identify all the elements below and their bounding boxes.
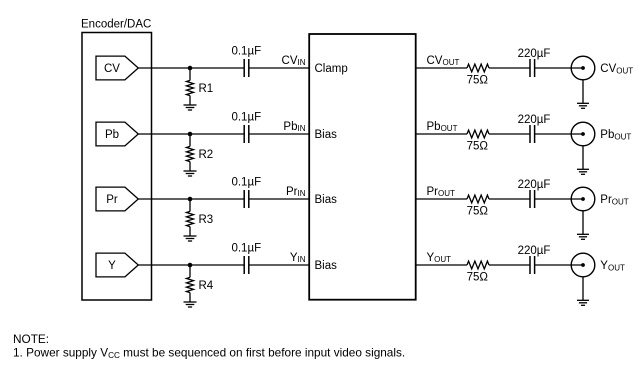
connector PbOUT jack xyxy=(571,122,595,146)
node label PrIN xyxy=(286,186,306,198)
resistor 75Ω (CV output) xyxy=(467,64,489,86)
node CV junction xyxy=(188,66,193,71)
encoder output pin Pb xyxy=(96,122,138,146)
encoder output pin Y xyxy=(96,253,138,277)
encoder output pin Pr xyxy=(96,187,138,211)
svg-text:Pr: Pr xyxy=(106,194,118,206)
ground below R1 xyxy=(184,105,197,110)
svg-text:75Ω: 75Ω xyxy=(467,74,489,86)
svg-text:0.1µF: 0.1µF xyxy=(231,243,261,255)
svg-text:1. Power supply VCC must be se: 1. Power supply VCC must be sequenced on… xyxy=(13,345,405,360)
connector YOUT jack xyxy=(571,253,595,277)
svg-text:YOUT: YOUT xyxy=(600,260,625,272)
capacitor 0.1µF (Pb input) xyxy=(231,112,261,143)
wire resistor to 220µF cap xyxy=(489,264,530,266)
ground below R2 xyxy=(184,171,197,176)
wire resistor to 220µF cap xyxy=(489,133,530,135)
svg-text:0.1µF: 0.1µF xyxy=(231,46,261,58)
svg-text:CVIN: CVIN xyxy=(282,55,306,67)
svg-text:YIN: YIN xyxy=(290,252,306,264)
wire cap to PrIN pin xyxy=(249,198,309,200)
svg-text:Bias: Bias xyxy=(315,194,338,206)
pin label Bias xyxy=(315,129,338,141)
svg-text:PbOUT: PbOUT xyxy=(427,121,458,133)
ground below PrOUT connector xyxy=(577,211,589,240)
wire resistor to 220µF cap xyxy=(489,198,530,200)
svg-text:Pb: Pb xyxy=(105,129,119,141)
video buffer block U1 xyxy=(309,34,416,300)
node Pb junction xyxy=(188,132,193,137)
resistor R1 xyxy=(187,70,214,106)
svg-text:220µF: 220µF xyxy=(518,48,551,60)
ground below CVOUT connector xyxy=(577,80,589,109)
wire Pb to coupling cap xyxy=(138,133,244,135)
encoder output pin CV xyxy=(96,56,138,80)
resistor 75Ω (Pb output) xyxy=(467,130,489,152)
capacitor 220µF (Y output) xyxy=(518,245,551,274)
svg-text:0.1µF: 0.1µF xyxy=(231,177,261,189)
wire cap to CVOUT connector xyxy=(535,67,583,69)
Encoder/DAC block xyxy=(81,18,152,300)
node label PbOUT (block output) xyxy=(427,121,458,133)
wire PbOUT to 75Ω resistor xyxy=(416,133,467,135)
node label CVIN xyxy=(282,55,306,67)
wire Y to coupling cap xyxy=(138,264,244,266)
pin label Bias xyxy=(315,194,338,206)
svg-text:Y: Y xyxy=(108,260,116,272)
svg-text:PrOUT: PrOUT xyxy=(427,186,456,198)
svg-text:NOTE:: NOTE: xyxy=(13,332,49,346)
node label CVOUT (connector) xyxy=(600,63,633,75)
capacitor 220µF (Pr output) xyxy=(518,179,551,208)
resistor 75Ω (Y output) xyxy=(467,261,489,283)
svg-text:R1: R1 xyxy=(199,83,214,95)
wire resistor to 220µF cap xyxy=(489,67,530,69)
svg-text:PbIN: PbIN xyxy=(283,121,305,133)
resistor R4 xyxy=(187,267,214,303)
pin label Clamp xyxy=(315,63,348,75)
svg-text:220µF: 220µF xyxy=(518,245,551,257)
wire PrOUT to 75Ω resistor xyxy=(416,198,467,200)
svg-text:CVOUT: CVOUT xyxy=(427,55,460,67)
wire cap to PbIN pin xyxy=(249,133,309,135)
node label PrOUT (connector) xyxy=(600,194,629,206)
capacitor 220µF (CV output) xyxy=(518,48,551,77)
svg-text:220µF: 220µF xyxy=(518,179,551,191)
connector PrOUT jack xyxy=(571,187,595,211)
svg-text:PrOUT: PrOUT xyxy=(600,194,629,206)
resistor R3 xyxy=(187,201,214,237)
node label YOUT (block output) xyxy=(427,252,452,264)
svg-text:PrIN: PrIN xyxy=(286,186,306,198)
wire cap to YIN pin xyxy=(249,264,309,266)
wire cap to CVIN pin xyxy=(249,67,309,69)
svg-text:Clamp: Clamp xyxy=(315,63,348,75)
capacitor 0.1µF (Y input) xyxy=(231,243,261,274)
resistor R2 xyxy=(187,136,214,172)
svg-text:CV: CV xyxy=(104,63,120,75)
resistor 75Ω (Pr output) xyxy=(467,195,489,217)
svg-text:R4: R4 xyxy=(199,280,214,292)
svg-text:PbOUT: PbOUT xyxy=(600,129,631,141)
ground below PbOUT connector xyxy=(577,146,589,175)
pin label Bias xyxy=(315,260,338,272)
connector CVOUT jack xyxy=(571,56,595,80)
svg-text:75Ω: 75Ω xyxy=(467,205,489,217)
svg-text:75Ω: 75Ω xyxy=(467,140,489,152)
capacitor 220µF (Pb output) xyxy=(518,114,551,143)
svg-text:R2: R2 xyxy=(199,149,214,161)
node label PbOUT (connector) xyxy=(600,129,631,141)
svg-text:R3: R3 xyxy=(199,214,214,226)
svg-text:CVOUT: CVOUT xyxy=(600,63,633,75)
node label YOUT (connector) xyxy=(600,260,625,272)
wire Pr to coupling cap xyxy=(138,198,244,200)
svg-text:Bias: Bias xyxy=(315,260,338,272)
wire cap to PrOUT connector xyxy=(535,198,583,200)
svg-text:75Ω: 75Ω xyxy=(467,271,489,283)
wire CV to coupling cap xyxy=(138,67,244,69)
svg-text:Bias: Bias xyxy=(315,129,338,141)
wire cap to PbOUT connector xyxy=(535,133,583,135)
svg-text:0.1µF: 0.1µF xyxy=(231,112,261,124)
node label YIN xyxy=(290,252,306,264)
ground below R4 xyxy=(184,302,197,307)
ground below YOUT connector xyxy=(577,277,589,306)
node Y junction xyxy=(188,263,193,268)
svg-text:220µF: 220µF xyxy=(518,114,551,126)
svg-text:YOUT: YOUT xyxy=(427,252,452,264)
note text xyxy=(13,332,405,360)
ground below R3 xyxy=(184,236,197,241)
node label CVOUT (block output) xyxy=(427,55,460,67)
node label PrOUT (block output) xyxy=(427,186,456,198)
wire CVOUT to 75Ω resistor xyxy=(416,67,467,69)
wire cap to YOUT connector xyxy=(535,264,583,266)
svg-text:Encoder/DAC: Encoder/DAC xyxy=(81,18,151,30)
wire YOUT to 75Ω resistor xyxy=(416,264,467,266)
node label PbIN xyxy=(283,121,305,133)
capacitor 0.1µF (CV input) xyxy=(231,46,261,77)
node Pr junction xyxy=(188,197,193,202)
capacitor 0.1µF (Pr input) xyxy=(231,177,261,208)
